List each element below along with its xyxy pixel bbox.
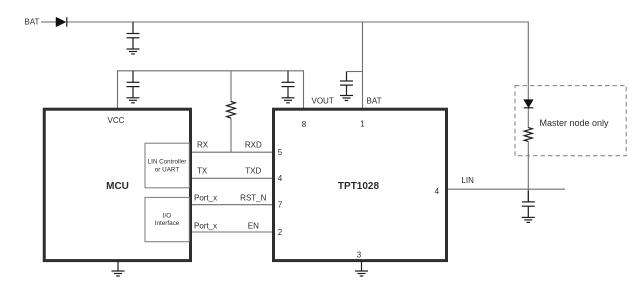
svg-text:8: 8 [302,120,307,129]
svg-text:Port_x: Port_x [194,221,217,230]
svg-text:BAT: BAT [367,96,382,105]
svg-text:RX: RX [197,140,209,149]
svg-text:RST_N: RST_N [240,194,266,203]
svg-text:TPT1028: TPT1028 [338,181,380,192]
svg-text:VCC: VCC [108,116,125,125]
svg-text:Interface: Interface [155,220,180,227]
svg-text:LIN Controller: LIN Controller [148,159,187,166]
svg-text:7: 7 [278,201,283,210]
svg-text:BAT: BAT [24,18,39,27]
svg-text:or UART: or UART [155,166,180,173]
svg-text:LIN: LIN [461,176,474,185]
svg-text:EN: EN [248,221,259,230]
svg-text:Master node only: Master node only [540,118,610,128]
svg-text:3: 3 [357,250,362,259]
svg-text:TXD: TXD [245,167,261,176]
svg-text:RXD: RXD [245,140,262,149]
svg-text:Port_x: Port_x [194,194,217,203]
svg-text:4: 4 [435,187,440,196]
svg-text:1: 1 [360,120,365,129]
svg-text:I/O: I/O [163,213,171,220]
svg-text:5: 5 [278,148,283,157]
svg-text:2: 2 [278,228,283,237]
svg-text:TX: TX [197,167,208,176]
svg-text:VOUT: VOUT [312,96,334,105]
svg-text:4: 4 [278,174,283,183]
svg-text:MCU: MCU [106,181,129,192]
